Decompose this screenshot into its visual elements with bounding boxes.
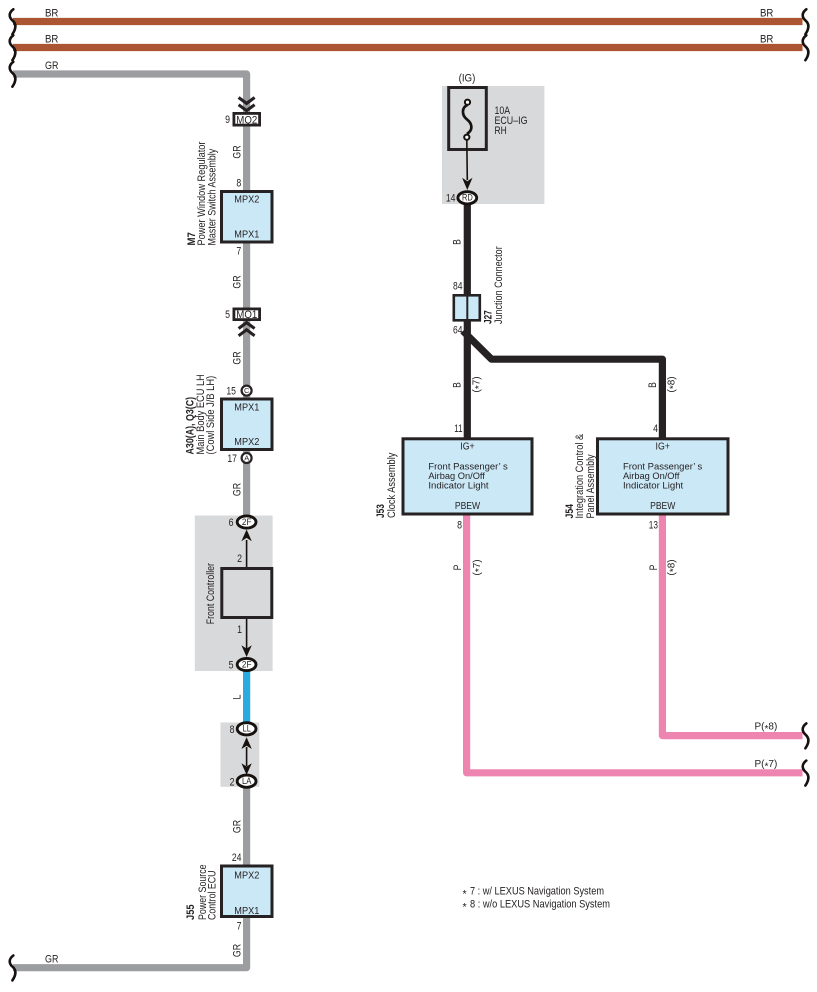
svg-text:Front Controller: Front Controller xyxy=(205,563,217,625)
shaded block: fuse area xyxy=(442,86,544,204)
svg-text:7 : w/ LEXUS Navigation System: 7 : w/ LEXUS Navigation System xyxy=(470,886,604,898)
svg-text:Clock Assembly: Clock Assembly xyxy=(386,452,398,518)
fuse box xyxy=(449,88,487,150)
svg-text:GR: GR xyxy=(231,351,243,364)
break symbol right BR2 xyxy=(803,35,809,60)
wire GR top horizontal + main vertical xyxy=(13,74,247,516)
break symbol right P(*8) xyxy=(803,723,809,748)
svg-text:B: B xyxy=(647,382,659,388)
junction connector J27 box xyxy=(454,295,480,320)
svg-text:24: 24 xyxy=(232,852,242,864)
wire thin from front controller xyxy=(246,619,248,650)
svg-text:2F: 2F xyxy=(242,659,252,669)
component J54 box xyxy=(598,439,729,514)
front controller box xyxy=(222,569,272,618)
connector MQ1 xyxy=(225,309,260,321)
svg-text:Control ECU: Control ECU xyxy=(207,871,219,921)
node LL oval xyxy=(230,723,256,736)
arrow down above LA xyxy=(241,763,251,775)
wire P pink from J54 xyxy=(662,515,802,736)
svg-text:LA: LA xyxy=(242,776,252,786)
svg-text:GR: GR xyxy=(231,944,243,957)
shaded block: front controller area xyxy=(195,516,273,672)
node 2F oval bottom xyxy=(229,658,256,671)
svg-text:MPX2: MPX2 xyxy=(234,436,259,448)
svg-text:GR: GR xyxy=(231,820,243,833)
svg-text:IG+: IG+ xyxy=(656,441,671,452)
svg-text:GR: GR xyxy=(231,275,243,288)
node C circle xyxy=(226,386,251,398)
node A circle xyxy=(227,453,251,465)
svg-text:PBEW: PBEW xyxy=(650,501,676,512)
arrow down into RD xyxy=(462,178,472,190)
svg-text:4: 4 xyxy=(653,423,658,435)
chevron double down above MQ2 xyxy=(239,98,255,111)
svg-text:GR: GR xyxy=(45,954,59,966)
svg-text:RH: RH xyxy=(495,125,507,137)
svg-text:5: 5 xyxy=(225,309,230,321)
svg-text:L: L xyxy=(231,694,243,699)
break symbol left GR xyxy=(10,62,16,87)
svg-text:1: 1 xyxy=(237,624,242,636)
wire L blue segment xyxy=(243,671,250,723)
svg-text:LL: LL xyxy=(243,724,251,734)
shaded block: LL/LA area xyxy=(221,723,260,787)
arrow down into 2F bottom xyxy=(241,645,251,657)
node RD oval xyxy=(446,192,477,205)
svg-text:14: 14 xyxy=(446,193,456,205)
svg-text:P: P xyxy=(648,565,660,571)
svg-text:BR: BR xyxy=(760,8,774,20)
wire GR lower vertical + bottom horizontal xyxy=(13,788,247,968)
svg-text:7: 7 xyxy=(237,921,242,933)
connector A30 MPX box xyxy=(222,399,273,450)
svg-text:Panel Assembly: Panel Assembly xyxy=(585,454,597,519)
fuse element xyxy=(463,100,471,140)
chevron double up below MQ1 xyxy=(239,323,255,336)
node LA oval xyxy=(230,775,256,788)
svg-text:P: P xyxy=(452,565,464,571)
svg-text:MPX1: MPX1 xyxy=(234,228,259,240)
svg-text:GR: GR xyxy=(45,60,59,72)
wire thin to front controller xyxy=(246,540,248,568)
label 10A ECU-IG RH xyxy=(495,105,528,137)
break symbol left GR bottom xyxy=(10,956,16,981)
break symbol right BR1 xyxy=(803,9,809,34)
wire BR top 2 xyxy=(13,44,803,51)
svg-text:(Cowl Side J/B LH): (Cowl Side J/B LH) xyxy=(205,376,217,455)
svg-text:Master Switch Assembly: Master Switch Assembly xyxy=(206,148,218,245)
svg-text:J55: J55 xyxy=(185,904,197,920)
svg-text:64: 64 xyxy=(453,325,463,337)
break symbol left BR1 xyxy=(10,9,16,34)
svg-text:MQ1: MQ1 xyxy=(236,309,257,321)
svg-text:*: * xyxy=(463,901,467,913)
svg-text:11: 11 xyxy=(454,423,462,435)
svg-text:Indicator Light: Indicator Light xyxy=(428,481,489,492)
break symbol left BR2 xyxy=(10,35,16,60)
svg-text:9: 9 xyxy=(225,114,230,126)
connector MQ2 xyxy=(225,113,260,126)
svg-text:C: C xyxy=(244,386,250,395)
svg-text:MPX1: MPX1 xyxy=(234,905,259,917)
svg-text:PBEW: PBEW xyxy=(455,501,481,512)
svg-text:13: 13 xyxy=(649,520,658,532)
svg-text:8: 8 xyxy=(457,520,462,532)
wire BR top 1 xyxy=(13,18,803,25)
svg-text:B: B xyxy=(451,239,463,245)
svg-text:8 : w/o LEXUS Navigation Syste: 8 : w/o LEXUS Navigation System xyxy=(470,899,610,911)
svg-text:GR: GR xyxy=(231,483,243,496)
wire thin fuse to RD xyxy=(466,140,469,180)
svg-text:A: A xyxy=(244,454,249,463)
break symbol right P(*7) xyxy=(803,761,809,786)
wire B black branch to J54 xyxy=(463,331,662,439)
svg-text:2: 2 xyxy=(230,777,235,789)
svg-text:MPX1: MPX1 xyxy=(234,401,259,413)
component J53 box xyxy=(403,439,532,514)
wire thin between LL and LA xyxy=(246,747,248,766)
wire B black main vertical xyxy=(464,203,471,439)
connector J55 MPX box xyxy=(222,866,273,917)
svg-text:Indicator Light: Indicator Light xyxy=(623,481,684,492)
svg-text:6: 6 xyxy=(229,517,234,529)
svg-text:7: 7 xyxy=(236,246,241,258)
arrow up into 2F top xyxy=(241,530,251,542)
svg-text:15: 15 xyxy=(226,386,236,398)
svg-text:8: 8 xyxy=(236,178,241,190)
svg-text:8: 8 xyxy=(230,724,235,736)
svg-text:B: B xyxy=(451,382,463,388)
arrow up below LL xyxy=(241,737,251,749)
svg-text:MQ2: MQ2 xyxy=(236,114,257,126)
wire P pink from J53 xyxy=(467,515,803,773)
svg-text:Junction Connector: Junction Connector xyxy=(493,246,505,324)
svg-text:BR: BR xyxy=(45,8,59,20)
svg-text:IG+: IG+ xyxy=(460,441,475,452)
svg-text:BR: BR xyxy=(760,34,774,46)
svg-text:5: 5 xyxy=(229,660,234,672)
connector M7 MPX box xyxy=(222,192,273,243)
svg-text:84: 84 xyxy=(453,280,463,292)
svg-text:GR: GR xyxy=(231,145,243,158)
svg-text:17: 17 xyxy=(227,453,237,465)
svg-text:MPX2: MPX2 xyxy=(234,869,259,881)
svg-text:2: 2 xyxy=(237,553,242,565)
svg-text:BR: BR xyxy=(45,34,59,46)
node 2F oval top xyxy=(229,516,256,529)
svg-text:(IG): (IG) xyxy=(459,73,476,85)
svg-text:*: * xyxy=(463,888,467,900)
svg-text:MPX2: MPX2 xyxy=(234,194,259,206)
svg-text:2F: 2F xyxy=(242,517,252,527)
svg-text:RD: RD xyxy=(462,193,473,203)
